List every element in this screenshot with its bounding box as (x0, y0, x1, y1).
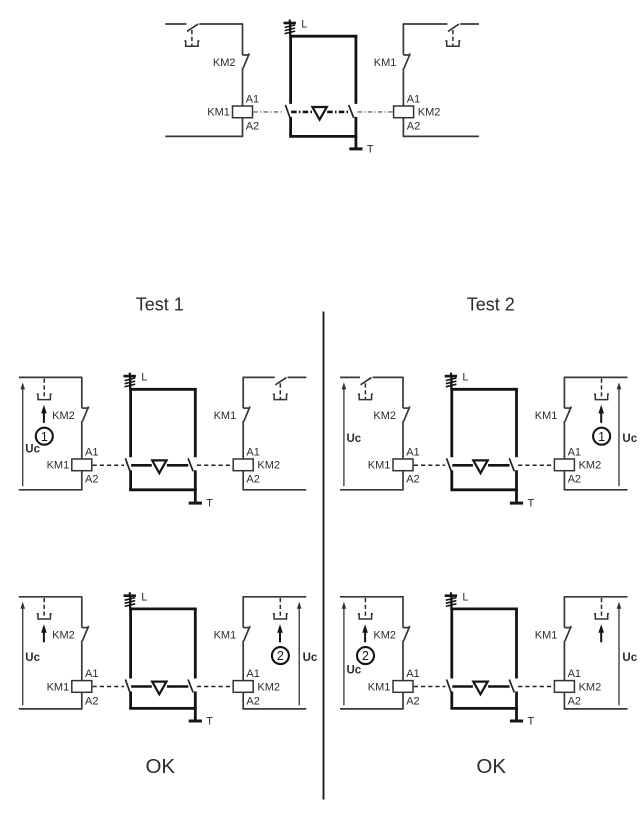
svg-text:OK: OK (476, 755, 506, 778)
wire right vertical upper (test1 step1) (242, 377, 244, 408)
interlock frame right wall (main) (354, 35, 357, 136)
pin label A2 of KM2 (main) (407, 121, 420, 133)
wire coil KM2 to bottom rail (test1 step2) (242, 692, 244, 709)
measuring arrow Uc left (test1 step1) (20, 382, 25, 486)
terminal label L (test2 step1) (462, 372, 468, 384)
divider line between tests (323, 312, 325, 800)
interlock frame left wall (test1 step1) (129, 388, 132, 490)
interlock latch contact left (test1 step2) (125, 680, 130, 693)
coil KM2 (main) (394, 106, 414, 118)
wire top rail left branch (test1 step2) (19, 596, 83, 598)
result label OK (test 1) (145, 755, 175, 778)
wire left vertical upper (test1 step1) (81, 377, 83, 408)
coil KM1 (test1 step1) (72, 459, 92, 471)
pin label A1 of KM2 (test2 step2) (568, 668, 581, 680)
svg-text:Uc: Uc (25, 443, 40, 455)
value label KM2 (test1 step2) (257, 681, 280, 693)
terminal label L (test1 step2) (141, 591, 147, 603)
pin label A2 of KM1 (test2 step2) (406, 695, 419, 707)
interlock frame top wall (test1 step2) (129, 608, 197, 611)
value label KM1 (test1 step1) (47, 460, 70, 472)
terminal T bar (test2 step2) (510, 720, 523, 723)
svg-text:2: 2 (362, 649, 369, 663)
interlock frame bottom wall (main) (289, 135, 357, 138)
linkage dashes to KM1 (test2 step1) (414, 464, 445, 466)
pin label A2 of KM2 (test2 step2) (568, 695, 581, 707)
measuring arrow Uc left (test2 step2) (342, 602, 347, 706)
wire top rail right branch (test1 step1) (243, 376, 307, 378)
wire to terminal T (test1 step1) (194, 490, 197, 503)
wire left vertical upper (test2 step2) (402, 597, 404, 628)
spring to terminal L (test1 step2) (124, 592, 136, 609)
wire right vertical upper (test2 step1) (563, 377, 565, 408)
label Uc left (test1 step1) (25, 443, 40, 455)
svg-text:A1: A1 (246, 668, 259, 680)
wire top rail left branch (test2 step1) (340, 376, 404, 378)
linkage dashes to KM1 (test1 step1) (93, 464, 124, 466)
spring to terminal L (test2 step2) (445, 592, 457, 609)
terminal T bar (test1 step2) (189, 720, 202, 723)
wire bottom rail left branch (test1 step1) (19, 489, 83, 491)
svg-text:KM1: KM1 (374, 57, 397, 69)
wire coil KM1 to bottom rail (test1 step1) (81, 471, 83, 490)
value label KM2 (test2 step2) (579, 681, 602, 693)
contact label KM1 (test2 step2) (535, 630, 558, 642)
wire left vertical lower (test2 step1) (402, 421, 404, 459)
wire bottom rail right branch (test1 step1) (243, 489, 307, 491)
pin label A1 of KM1 (main) (246, 93, 259, 105)
interlock link bar (test1 step2) (131, 685, 188, 688)
wire right vertical upper (test2 step2) (563, 597, 565, 628)
pin label A1 of KM2 (test1 step1) (246, 446, 259, 458)
wire right vertical lower (test2 step1) (563, 421, 565, 459)
linkage dashes to KM2 (test1 step2) (197, 686, 233, 688)
svg-text:L: L (141, 591, 147, 603)
svg-text:A2: A2 (568, 474, 581, 486)
interlock frame right wall (test1 step2) (194, 608, 197, 709)
svg-text:A1: A1 (246, 446, 259, 458)
pin label A1 of KM1 (test1 step2) (85, 668, 98, 680)
contact KM1 NC (test2 step1) (564, 407, 571, 422)
interlock latch contact right (test1 step2) (188, 680, 193, 693)
wire left vertical lower (test2 step2) (402, 641, 404, 681)
svg-text:KM2: KM2 (579, 460, 602, 472)
linkage dashes to KM2 (test2 step1) (518, 464, 554, 466)
svg-text:A1: A1 (85, 446, 98, 458)
coil KM1 (test2 step2) (393, 681, 413, 693)
terminal T bar (test2 step1) (510, 502, 523, 505)
pin label A2 of KM2 (test1 step2) (246, 695, 259, 707)
spring to terminal L (test2 step1) (445, 373, 457, 390)
pin label A2 of KM2 (test2 step1) (568, 474, 581, 486)
interlock frame top wall (test1 step1) (129, 388, 197, 391)
wire coil KM1 to bottom rail (test2 step1) (402, 471, 404, 490)
svg-text:A2: A2 (85, 474, 98, 486)
svg-text:T: T (528, 716, 535, 728)
push button S2 (main) (445, 24, 460, 46)
contact label KM2 (test2 step2) (373, 630, 396, 642)
svg-text:L: L (462, 591, 468, 603)
svg-text:L: L (462, 372, 468, 384)
interlock frame top wall (test2 step1) (450, 388, 518, 391)
wire to terminal T (test2 step2) (515, 708, 518, 721)
contact KM2 NC (test2 step2) (403, 626, 410, 641)
contact KM2 NC (test2 step1) (403, 407, 410, 422)
push button S-right (test2 step2) (594, 598, 609, 619)
svg-text:1: 1 (598, 430, 605, 444)
coil KM1 (test2 step1) (393, 459, 413, 471)
wire to terminal T (main) (354, 136, 357, 149)
terminal T bar (main) (349, 147, 362, 150)
interlock frame right wall (test2 step1) (515, 388, 518, 490)
svg-text:A2: A2 (246, 474, 259, 486)
interlock frame right wall (test2 step2) (515, 608, 518, 709)
pin label A1 of KM1 (test2 step2) (406, 668, 419, 680)
svg-text:Uc: Uc (347, 664, 362, 676)
wire top rail left branch (test1 step1) (19, 376, 83, 378)
interlock frame bottom wall (test1 step1) (129, 488, 197, 491)
value label KM2 (main) (418, 107, 441, 119)
press arrow at S-left (test2 step2) (362, 624, 368, 642)
svg-text:A2: A2 (246, 695, 259, 707)
linkage dash-dot to KM2 (main) (358, 111, 393, 113)
result label OK (test 2) (476, 755, 506, 778)
svg-text:L: L (301, 19, 307, 31)
interlock pawl triangle (test1 step2) (152, 682, 166, 695)
terminal label T (main) (367, 144, 374, 156)
interlock latch contact left (main) (285, 105, 290, 118)
svg-text:L: L (141, 372, 147, 384)
svg-text:Uc: Uc (622, 433, 637, 445)
pin label A2 of KM1 (test1 step2) (85, 695, 98, 707)
contact label KM1 (main) (374, 57, 397, 69)
push button S-left (test1 step1) (37, 379, 52, 400)
wire right vertical lower (main) (402, 68, 404, 106)
svg-text:KM1: KM1 (47, 460, 70, 472)
wire coil KM1 to bottom rail (test2 step2) (402, 692, 404, 709)
contact label KM2 (test2 step1) (373, 410, 396, 422)
linkage dashes to KM1 (test2 step2) (414, 686, 445, 688)
svg-text:KM1: KM1 (214, 630, 237, 642)
wire top rail right branch (test1 step2) (243, 596, 307, 598)
interlock frame bottom wall (test2 step2) (450, 707, 518, 710)
label Uc left (test2 step1) (347, 433, 362, 445)
step marker 2 (test2 step2) (357, 647, 374, 664)
contact KM2 NC (test1 step2) (82, 626, 89, 641)
svg-text:A1: A1 (407, 93, 420, 105)
contact label KM1 (test1 step1) (214, 410, 237, 422)
wire bottom rail right branch (main) (403, 135, 479, 137)
wire bottom rail left branch (test1 step2) (19, 708, 83, 710)
press arrow at S-right (test2 step1) (598, 405, 604, 423)
interlock frame left wall (test1 step2) (129, 608, 132, 709)
coil KM2 (test2 step1) (554, 459, 574, 471)
spring to terminal L (test1 step1) (124, 373, 136, 390)
interlock frame right wall (test1 step1) (194, 388, 197, 490)
svg-text:A1: A1 (246, 93, 259, 105)
wire top rail left branch (main) (165, 23, 243, 25)
svg-text:KM1: KM1 (214, 410, 237, 422)
push button S-right (test2 step1) (594, 379, 609, 400)
contact label KM1 (test2 step1) (535, 410, 558, 422)
svg-text:KM1: KM1 (47, 681, 70, 693)
label Uc right (test2 step1) (622, 433, 637, 445)
svg-text:KM2: KM2 (257, 681, 280, 693)
press arrow at S-right (test1 step2) (277, 624, 283, 642)
push button S-right (test1 step2) (273, 598, 288, 619)
interlock latch contact left (test2 step2) (447, 680, 452, 693)
svg-text:KM1: KM1 (535, 630, 558, 642)
section title Test 1 (136, 295, 184, 315)
wire top rail right branch (main) (403, 23, 479, 25)
interlock frame bottom wall (test1 step2) (129, 707, 197, 710)
svg-text:KM2: KM2 (52, 410, 75, 422)
contact KM1 NC (test1 step1) (243, 407, 250, 422)
svg-text:KM2: KM2 (418, 107, 441, 119)
wire to terminal T (test1 step2) (194, 708, 197, 721)
svg-text:T: T (367, 144, 374, 156)
svg-text:T: T (206, 716, 213, 728)
measuring arrow Uc right (test1 step2) (297, 602, 302, 706)
svg-text:KM2: KM2 (257, 460, 280, 472)
wire coil KM2 to bottom rail (test1 step1) (242, 471, 244, 490)
interlock link bar (test2 step2) (452, 685, 509, 688)
contact KM2 NC (test1 step1) (82, 407, 89, 422)
interlock latch contact right (test2 step1) (509, 458, 514, 471)
interlock latch contact left (test1 step1) (125, 458, 130, 471)
wire right vertical lower (test1 step1) (242, 421, 244, 459)
linkage dash-dot to KM1 (main) (253, 111, 284, 113)
wire top rail right branch (test2 step1) (564, 376, 628, 378)
value label KM1 (test2 step1) (368, 460, 391, 472)
value label KM2 (test2 step1) (579, 460, 602, 472)
wire left vertical upper (main) (242, 24, 244, 55)
terminal T bar (test1 step1) (189, 502, 202, 505)
wire right vertical upper (main) (402, 24, 404, 55)
contact label KM2 (test1 step1) (52, 410, 75, 422)
svg-text:A1: A1 (406, 668, 419, 680)
interlock link bar (test2 step1) (452, 464, 509, 467)
coil KM2 (test1 step2) (233, 681, 253, 693)
contact label KM2 (main) (213, 57, 236, 69)
wire left vertical upper (test1 step2) (81, 597, 83, 628)
value label KM1 (main) (207, 107, 230, 119)
svg-text:KM1: KM1 (368, 460, 391, 472)
push button S-left (test2 step2) (358, 598, 373, 619)
push button S-left (test1 step2) (37, 598, 52, 619)
svg-text:KM1: KM1 (368, 681, 391, 693)
pin label A2 of KM1 (test2 step1) (406, 474, 419, 486)
pin label A1 of KM1 (test2 step1) (406, 446, 419, 458)
svg-text:A1: A1 (85, 668, 98, 680)
contact KM1 NC (test2 step2) (564, 626, 571, 641)
value label KM1 (test1 step2) (47, 681, 70, 693)
coil KM1 (main) (233, 106, 253, 118)
pin label A1 of KM2 (test1 step2) (246, 668, 259, 680)
interlock pawl triangle (test2 step2) (473, 682, 487, 695)
wire coil KM1 to bottom rail (main) (242, 118, 244, 137)
step marker 2 (test1 step2) (272, 647, 289, 664)
svg-text:T: T (528, 498, 535, 510)
label Uc left (test2 step2) (347, 664, 362, 676)
terminal label L (test1 step1) (141, 372, 147, 384)
svg-text:2: 2 (277, 649, 284, 663)
wire top rail left branch (test2 step2) (340, 596, 404, 598)
press arrow at S-right (test2 step2) (598, 624, 604, 642)
wire bottom rail left branch (main) (165, 135, 243, 137)
pin label A1 of KM1 (test1 step1) (85, 446, 98, 458)
label Uc right (test1 step2) (303, 652, 318, 664)
svg-text:Uc: Uc (25, 652, 40, 664)
step marker 1 (test2 step1) (593, 428, 610, 445)
svg-text:1: 1 (41, 430, 48, 444)
coil KM2 (test2 step2) (554, 681, 574, 693)
wire bottom rail left branch (test2 step1) (340, 489, 404, 491)
svg-text:A1: A1 (568, 446, 581, 458)
press arrow at S-left (test1 step2) (41, 624, 47, 642)
svg-text:KM2: KM2 (213, 57, 236, 69)
contact label KM1 (test1 step2) (214, 630, 237, 642)
interlock latch contact right (test1 step1) (188, 458, 193, 471)
interlock pawl triangle (test2 step1) (473, 460, 487, 473)
interlock latch contact right (test2 step2) (509, 680, 514, 693)
svg-text:A2: A2 (407, 121, 420, 133)
linkage dashes to KM2 (test2 step2) (518, 686, 554, 688)
wire bottom rail right branch (test2 step2) (564, 708, 628, 710)
push button S-right (test1 step1) (273, 378, 288, 400)
pin label A1 of KM2 (test2 step1) (568, 446, 581, 458)
wire coil KM2 to bottom rail (main) (402, 118, 404, 137)
svg-text:A1: A1 (406, 446, 419, 458)
svg-text:A2: A2 (568, 695, 581, 707)
svg-text:KM1: KM1 (535, 410, 558, 422)
section title Test 2 (467, 295, 515, 315)
wire bottom rail right branch (test1 step2) (243, 708, 307, 710)
wire left vertical lower (test1 step2) (81, 641, 83, 681)
contact label KM2 (test1 step2) (52, 630, 75, 642)
svg-text:KM1: KM1 (207, 107, 230, 119)
svg-text:T: T (206, 498, 213, 510)
pin label A2 of KM1 (main) (246, 121, 259, 133)
wire to terminal T (test2 step1) (515, 490, 518, 503)
svg-text:KM2: KM2 (373, 410, 396, 422)
svg-text:A2: A2 (406, 474, 419, 486)
value label KM1 (test2 step2) (368, 681, 391, 693)
svg-text:Test 1: Test 1 (136, 295, 184, 315)
contact KM2 NC (main) (243, 53, 250, 68)
interlock latch contact right (main) (349, 105, 354, 118)
svg-text:A2: A2 (246, 121, 259, 133)
wire top rail right branch (test2 step2) (564, 596, 628, 598)
wire bottom rail right branch (test2 step1) (564, 489, 628, 491)
wire right vertical lower (test2 step2) (563, 641, 565, 681)
svg-text:OK: OK (145, 755, 175, 778)
interlock frame top wall (test2 step2) (450, 608, 518, 611)
svg-text:KM2: KM2 (52, 630, 75, 642)
wire coil KM2 to bottom rail (test2 step2) (563, 692, 565, 709)
linkage dashes to KM2 (test1 step1) (197, 464, 233, 466)
svg-text:A1: A1 (568, 668, 581, 680)
svg-text:KM2: KM2 (373, 630, 396, 642)
label Uc left (test1 step2) (25, 652, 40, 664)
push button S-left (test2 step1) (358, 378, 373, 400)
svg-text:A2: A2 (85, 695, 98, 707)
svg-text:Uc: Uc (303, 652, 318, 664)
coil KM2 (test1 step1) (233, 459, 253, 471)
linkage dashes to KM1 (test1 step2) (93, 686, 124, 688)
wire left vertical lower (test1 step1) (81, 421, 83, 459)
interlock frame left wall (test2 step1) (450, 388, 453, 490)
contact KM1 NC (test1 step2) (243, 626, 250, 641)
press arrow at S-left (test1 step1) (41, 405, 47, 423)
pin label A1 of KM2 (main) (407, 93, 420, 105)
svg-text:Uc: Uc (347, 433, 362, 445)
wire left vertical upper (test2 step1) (402, 377, 404, 408)
terminal label T (test2 step2) (528, 716, 535, 728)
terminal label T (test1 step2) (206, 716, 213, 728)
coil KM1 (test1 step2) (72, 681, 92, 693)
wire right vertical lower (test1 step2) (242, 641, 244, 681)
spring to terminal L (main) (284, 20, 296, 37)
interlock link bar (test1 step1) (131, 464, 188, 467)
terminal label L (main) (301, 19, 307, 31)
svg-text:Uc: Uc (622, 652, 637, 664)
interlock pawl triangle (test1 step1) (152, 460, 166, 473)
value label KM2 (test1 step1) (257, 460, 280, 472)
step marker 1 (test1 step1) (36, 428, 53, 445)
terminal label T (test1 step1) (206, 498, 213, 510)
svg-text:Test 2: Test 2 (467, 295, 515, 315)
push button S1 (main) (184, 24, 199, 46)
wire coil KM2 to bottom rail (test2 step1) (563, 471, 565, 490)
measuring arrow Uc right (test2 step2) (617, 602, 622, 706)
wire bottom rail left branch (test2 step2) (340, 708, 404, 710)
measuring arrow Uc left (test2 step1) (342, 382, 347, 486)
contact KM1 NC (main) (403, 53, 410, 68)
interlock frame left wall (main) (289, 35, 292, 136)
svg-text:A2: A2 (406, 695, 419, 707)
pin label A2 of KM2 (test1 step1) (246, 474, 259, 486)
interlock frame bottom wall (test2 step1) (450, 488, 518, 491)
wire left vertical lower (main) (242, 68, 244, 106)
pin label A2 of KM1 (test1 step1) (85, 474, 98, 486)
interlock link bar (main) (291, 111, 349, 114)
label Uc right (test2 step2) (622, 652, 637, 664)
wire right vertical upper (test1 step2) (242, 597, 244, 628)
measuring arrow Uc right (test2 step1) (617, 382, 622, 486)
interlock latch contact left (test2 step1) (447, 458, 452, 471)
terminal label L (test2 step2) (462, 591, 468, 603)
interlock frame left wall (test2 step2) (450, 608, 453, 709)
svg-text:KM2: KM2 (579, 681, 602, 693)
terminal label T (test2 step1) (528, 498, 535, 510)
wire coil KM1 to bottom rail (test1 step2) (81, 692, 83, 709)
measuring arrow Uc left (test1 step2) (20, 602, 25, 706)
interlock pawl triangle (main) (312, 107, 326, 120)
interlock frame top wall (main) (289, 35, 357, 38)
